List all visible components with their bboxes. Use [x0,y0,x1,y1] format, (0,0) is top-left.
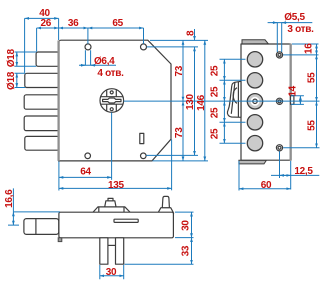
svg-text:55: 55 [307,72,318,83]
svg-text:65: 65 [112,18,123,29]
dim 12,5 line [271,174,319,176]
svg-text:135: 135 [108,180,125,191]
dim Ø5,5 leader [268,22,313,24]
hub base inner edges [99,207,124,213]
svg-text:30: 30 [106,267,117,278]
dim 64/135 left extension [58,162,60,191]
dim 33 right line [191,238,193,265]
dim 30 bottom line [100,275,124,277]
extension plate top right [292,43,319,45]
svg-text:16,6: 16,6 [4,189,15,208]
keyhole screw tabs [107,90,117,111]
dim 25 chain [223,59,225,80]
extension top edge right [150,39,208,41]
mounting hole bottom-left [85,153,91,159]
key axis center hole [253,99,257,103]
cylinder leg right [116,238,124,264]
dim 33 bottom extension [125,263,194,265]
dim 14 line [299,96,301,105]
cylinder leg left [100,238,108,264]
bolt segment divider [35,219,37,235]
slot in body [114,219,138,222]
svg-text:36: 36 [68,18,79,29]
hub cap [105,201,116,207]
svg-text:Ø5,5: Ø5,5 [284,12,305,23]
svg-text:25: 25 [210,65,221,76]
bolt end circle 2 [247,73,262,88]
bolt 3 [24,95,59,109]
dim 135 right extension [171,140,173,191]
dim 16,6 top reference [13,211,60,213]
svg-text:3 отв.: 3 отв. [287,24,314,35]
dim Ø18 upper extensions [15,52,37,66]
dim 130 line [194,47,196,155]
extension bottom edge right [153,160,209,162]
svg-text:30: 30 [181,220,192,231]
side plate thick right edge [290,44,292,161]
svg-text:12,5: 12,5 [294,166,313,177]
screw hole 3 [276,145,282,151]
hub nub [108,198,113,200]
bolt 2 [25,73,59,87]
dim 55 upper line [316,55,318,101]
dim 30 extension right top [175,211,194,213]
bottom view body [59,212,173,238]
dim 14 extensions [291,96,304,105]
svg-text:33: 33 [181,245,192,256]
latch inner edge [231,82,238,117]
pin cylinder [162,196,169,207]
dim 25 extension lines [220,59,246,143]
hub base (left boss) [92,207,131,213]
extension holes line right [147,46,198,48]
stop tab on right edge [291,96,294,105]
bolt 5 [25,136,59,150]
extension screw3 line [283,147,319,149]
key axis white ring [251,97,260,106]
faceplate edge tab below body [58,238,62,242]
key centre line across page [124,100,320,102]
svg-text:16: 16 [304,43,315,54]
dim 60 left extension [238,161,240,191]
svg-text:14: 14 [288,85,299,96]
dim 30 bottom extensions [100,265,124,279]
svg-text:4 отв.: 4 отв. [97,68,124,79]
dim 30/33 middle extension [175,237,194,239]
pin base (right boss) [158,208,174,213]
bolt 1 (upper deadbolt) [36,52,59,66]
screw hole 1 [276,52,282,58]
faceplate top tab [242,40,268,44]
lever latch on left edge [227,81,241,117]
dim 16,6 upper tail and tick [8,188,19,225]
dim 64 line [59,176,112,178]
svg-text:73: 73 [174,127,185,138]
dim Ø18 lower line [16,73,18,87]
small latch window [140,133,144,143]
screw hole 2 [276,98,282,104]
dim Ø6,4 extensions [85,50,90,65]
latch roller arc [233,88,237,104]
svg-text:73: 73 [174,65,185,76]
dim Ø5,5 extensions [277,23,281,52]
keyhole chord lines [101,97,123,105]
dim 73 lower line [182,101,184,161]
bolt (bottom view) [24,219,59,235]
faceplate edge (thick grey left edge) [57,41,59,161]
bolt end circle 5 [247,136,262,151]
bolt end circle 1 [247,52,262,67]
dim 16,6 line [12,212,14,225]
keyhole bottom extension [111,113,113,180]
svg-text:64: 64 [80,167,91,178]
svg-text:Ø18: Ø18 [6,49,17,68]
svg-text:146: 146 [196,94,207,111]
dim Ø6,4 leader [79,64,116,66]
svg-text:Ø6,4: Ø6,4 [94,56,115,67]
extension bottom holes right [146,154,198,156]
dim 65 line [88,27,144,29]
mounting hole bottom-right [141,153,147,159]
extension screw1 line [283,54,319,56]
side plate body [241,44,290,160]
dim 12,5 extensions [280,151,291,189]
keyhole screw top [110,91,113,94]
dim Ø18 lower extensions [15,73,26,87]
dim 55 lower line [316,101,318,148]
dim 73 upper line [182,40,184,101]
dim 146 line [204,40,206,160]
keyway slot [103,98,121,103]
dim 36 line [59,27,88,29]
svg-text:25: 25 [210,107,221,118]
dim 40 line [25,17,59,19]
bolt 4 [24,116,59,131]
svg-text:130: 130 [185,93,196,110]
dim 60 line [239,188,291,190]
dim 40 extensions [25,18,59,72]
keyhole screw bottom [110,108,113,111]
svg-text:Ø18: Ø18 [6,71,17,90]
mounting hole top-right [141,44,147,50]
key axis circle 3 [247,94,262,109]
svg-text:8: 8 [185,30,196,36]
dim 26 line [37,27,59,29]
svg-text:25: 25 [210,86,221,97]
mounting hole top-left [85,44,91,50]
dim Ø18 upper line [16,52,18,66]
dim 8 arrows [194,29,196,40]
dim 135 line [59,187,172,189]
bolt end circle 4 [247,115,262,130]
cylinder bridge [108,244,116,246]
faceplate bottom tab [239,160,267,164]
svg-text:25: 25 [210,128,221,139]
dim 30 right line [191,212,193,238]
keyhole escutcheon circle [100,89,124,113]
dim 26/36/65 extensions [37,28,144,52]
dim 16 line [316,44,318,55]
svg-text:26: 26 [41,18,52,29]
lock body outline [59,40,171,161]
svg-text:60: 60 [261,180,272,191]
svg-text:55: 55 [307,120,318,131]
